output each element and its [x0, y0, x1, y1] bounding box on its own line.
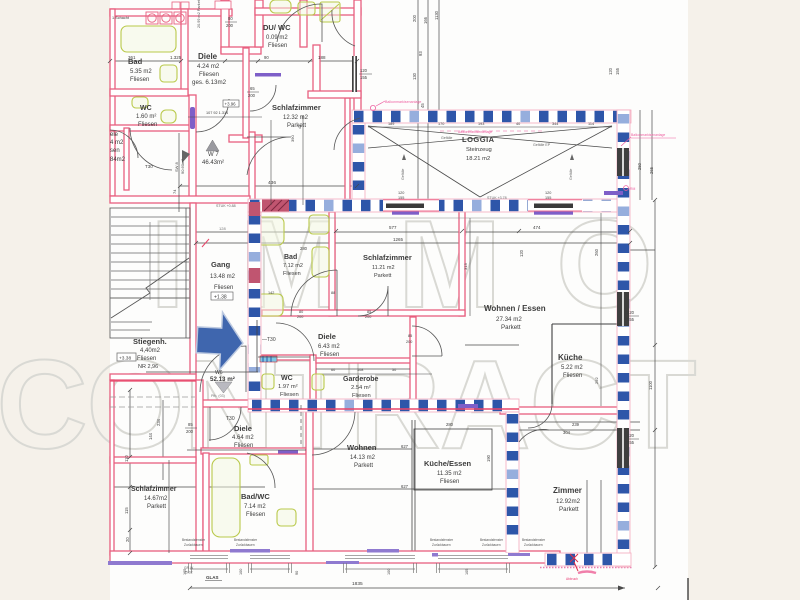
- ticks chain bottom: [188, 586, 660, 590]
- window opening bottom 4: [438, 553, 508, 561]
- svg-text:Parkett: Parkett: [374, 273, 392, 279]
- pink underline right: [631, 137, 676, 139]
- svg-text:200: 200: [226, 23, 234, 28]
- toilet WC apartment: [262, 374, 274, 389]
- window right band a: [617, 292, 629, 326]
- svg-text:52.13 m²: 52.13 m²: [210, 376, 235, 383]
- svg-text:4.64 m2: 4.64 m2: [232, 435, 254, 441]
- wall diele-b bottom: [201, 448, 306, 454]
- pink dotted line under band: [540, 567, 632, 569]
- fixture DU/WC circle: [298, 2, 315, 15]
- wall WC small bottom: [110, 125, 190, 131]
- dim small right 280: [630, 249, 655, 251]
- dim line W6: [146, 371, 258, 373]
- svg-text:Zurückbauen: Zurückbauen: [236, 543, 255, 547]
- door arc zimmer: [519, 429, 549, 442]
- stair tread 8: [111, 279, 189, 281]
- svg-text:155: 155: [615, 67, 620, 75]
- svg-text:85: 85: [367, 310, 371, 314]
- svg-text:627: 627: [401, 444, 409, 449]
- washbasin Bad/WC bottom: [277, 509, 296, 526]
- svg-text:1.Schacht: 1.Schacht: [112, 16, 130, 20]
- wall under DU/WC: [229, 135, 262, 142]
- door arc schlafzimmer apartment: [358, 286, 388, 316]
- loggia ridge b: [368, 126, 612, 148]
- dim vertical left bottom b: [162, 400, 164, 480]
- wall DU/WC right lower: [313, 45, 320, 95]
- wall Bad bottom: [110, 89, 188, 96]
- violet bar top band right: [604, 191, 623, 195]
- svg-text:344: 344: [552, 122, 558, 126]
- violet dash bottom wall b: [367, 549, 399, 553]
- svg-text:WC: WC: [140, 105, 152, 112]
- bathtub Bad apartment: [256, 217, 284, 245]
- svg-text:120: 120: [360, 68, 368, 73]
- svg-text:Gefälle: Gefälle: [569, 169, 573, 180]
- svg-text:Gang: Gang: [211, 260, 231, 269]
- svg-text:1265: 1265: [393, 237, 404, 242]
- svg-text:Fliesen: Fliesen: [130, 77, 149, 83]
- dim zimmer top 304/239: [519, 429, 640, 431]
- svg-text:Fliesen: Fliesen: [199, 71, 220, 78]
- apartment interior top line: [262, 217, 617, 219]
- svg-text:Bestandsfenster: Bestandsfenster: [234, 538, 258, 542]
- small boxes top row: [172, 2, 180, 9]
- fixture Bad apartment tall: [312, 247, 329, 277]
- violet bar diele/badwc window: [278, 450, 298, 454]
- svg-text:115: 115: [124, 507, 129, 514]
- svg-text:234: 234: [156, 418, 161, 426]
- svg-text:Schlafzimmer: Schlafzimmer: [272, 103, 321, 112]
- bathtub Bad/WC bottom: [212, 458, 240, 537]
- svg-text:474: 474: [533, 225, 541, 230]
- window opening bottom 2: [250, 553, 290, 561]
- svg-text:40: 40: [516, 122, 520, 126]
- door arc wohnen entry: [412, 326, 442, 356]
- svg-text:85: 85: [408, 334, 412, 338]
- window top band b (black bar + violet sill): [528, 200, 582, 215]
- svg-text:Parkett: Parkett: [147, 504, 166, 510]
- window right band b: [617, 428, 629, 468]
- door arc upper diele: [247, 137, 291, 175]
- violet bar corridor window: [190, 107, 195, 129]
- violet dashes bottom wall left: [108, 561, 172, 565]
- staircase outline: [110, 208, 190, 338]
- svg-text:390: 390: [290, 135, 295, 142]
- apartment entrance door gap: [249, 338, 260, 367]
- red hatch top band left: [262, 200, 289, 212]
- stair tread 3: [111, 234, 189, 236]
- svg-text:Bestandsfenster: Bestandsfenster: [522, 538, 546, 542]
- svg-text:14.67m2: 14.67m2: [144, 496, 168, 502]
- svg-text:4 m2: 4 m2: [110, 140, 124, 146]
- checker band right outer: [617, 110, 630, 567]
- svg-text:105: 105: [465, 569, 469, 575]
- wall schlafzimmer upper left vert: [249, 132, 255, 202]
- wall bottom outer: [110, 551, 560, 563]
- svg-text:Diele: Diele: [198, 52, 218, 61]
- svg-text:Schlafzimmer: Schlafzimmer: [131, 486, 177, 493]
- fraction line 120/155 b: [626, 315, 639, 317]
- svg-text:170: 170: [438, 122, 444, 126]
- svg-text:155: 155: [398, 196, 404, 200]
- svg-text:27.34 m2: 27.34 m2: [496, 316, 522, 323]
- door arc wohnen bottom: [312, 412, 355, 455]
- stair lower treads: [111, 321, 152, 323]
- pink swoosh: [578, 572, 596, 574]
- checker band apartment top: [248, 199, 617, 212]
- wall schlafzimmer-bl top: [110, 457, 196, 463]
- window right band c: [617, 148, 629, 176]
- stair tread 2: [111, 225, 189, 227]
- dark line through band gap: [256, 320, 258, 372]
- shower DU/WC: [320, 2, 340, 22]
- wall bottom-left block vertical: [196, 380, 203, 555]
- washbasin Garderobe: [312, 374, 324, 390]
- svg-text:Fliesen: Fliesen: [234, 443, 253, 449]
- svg-text:90.60m²: 90.60m²: [180, 159, 185, 174]
- svg-text:155: 155: [545, 196, 551, 200]
- box labels 60x35: [215, 1, 231, 9]
- svg-text:Wohnen: Wohnen: [347, 443, 377, 452]
- svg-text:128: 128: [219, 226, 226, 231]
- svg-text:65: 65: [250, 86, 255, 91]
- svg-text:292: 292: [594, 377, 599, 384]
- svg-text:250: 250: [637, 162, 642, 170]
- SW8 triangle marker: [182, 150, 190, 163]
- underline GLAS: [205, 580, 222, 582]
- svg-text:14.13 m2: 14.13 m2: [350, 455, 376, 461]
- dim vertical left bottom: [129, 390, 131, 553]
- drawing sheet: [110, 0, 688, 600]
- svg-text:188: 188: [318, 55, 326, 60]
- svg-text:Küche/Essen: Küche/Essen: [424, 459, 472, 468]
- svg-text:Schlafzimmer: Schlafzimmer: [363, 253, 412, 262]
- dim vertical top a: [417, 0, 419, 199]
- svg-text:110: 110: [124, 455, 129, 462]
- wall stair right vertical: [190, 203, 196, 378]
- door label box: [260, 356, 277, 362]
- stair break line: [111, 258, 189, 318]
- ticks upper chain: [108, 59, 359, 63]
- wall wc top: [258, 355, 314, 360]
- dim schlafzimmer strike: [110, 486, 265, 488]
- kueche dim vert: [600, 213, 602, 406]
- checker band loggia left: [352, 123, 365, 200]
- red tick gang: [202, 239, 209, 247]
- zimmer dim vert a: [586, 480, 588, 554]
- dim chain apartment 1265: [196, 242, 630, 244]
- svg-text:100: 100: [387, 569, 391, 575]
- wall schlafzimmer upper right vert: [345, 98, 350, 202]
- violet dash bottom wall c: [432, 553, 470, 557]
- stair inner wall line: [185, 208, 187, 338]
- wall diele right vertical: [243, 48, 249, 138]
- svg-text:+3.96: +3.96: [225, 102, 237, 107]
- svg-text:120: 120: [398, 191, 404, 195]
- svg-text:144: 144: [148, 432, 153, 440]
- svg-text:Diele: Diele: [318, 332, 336, 341]
- svg-text:627: 627: [401, 484, 409, 489]
- wall DU/WC right upper: [300, 0, 307, 47]
- stair tread 10: [111, 297, 189, 299]
- svg-text:155: 155: [627, 440, 635, 445]
- blue direction arrow: [196, 311, 245, 371]
- dark line diele-b bottom: [187, 449, 306, 451]
- svg-text:1130: 1130: [434, 10, 439, 20]
- svg-text:265: 265: [649, 166, 654, 174]
- svg-text:Fliesen: Fliesen: [563, 373, 582, 379]
- svg-text:Fliesen: Fliesen: [137, 356, 156, 362]
- washbasin circle 1: [146, 12, 158, 24]
- wall Diele left vertical: [221, 0, 229, 53]
- svg-text:361: 361: [128, 55, 136, 60]
- svg-text:84m2: 84m2: [110, 157, 126, 163]
- dim chain apartment 577/474: [196, 231, 630, 233]
- wall gang bottom: [196, 400, 261, 407]
- svg-text:Fliesen: Fliesen: [440, 479, 459, 485]
- dim page mark bottom right: [687, 578, 689, 600]
- svg-text:4,40m2: 4,40m2: [140, 348, 161, 354]
- checker band bottom right: [545, 553, 631, 566]
- svg-text:155: 155: [627, 317, 635, 322]
- svg-text:+1.38: +1.38: [214, 295, 227, 301]
- wall DU/WC left vertical: [255, 0, 263, 47]
- dim vertical right a: [639, 110, 641, 200]
- fixture WC oval a: [132, 97, 148, 108]
- ticks right chain: [653, 198, 657, 569]
- violet dash bottom wall e: [230, 549, 270, 553]
- wall gang top / block bottom: [110, 196, 250, 203]
- svg-text:1.97 m²: 1.97 m²: [278, 384, 298, 390]
- dashed lines under stairs: [110, 396, 195, 398]
- fixture WC oval b: [161, 110, 176, 123]
- dark line wc top: [258, 356, 310, 358]
- stair tread 7: [111, 270, 189, 272]
- loggia ridge a: [368, 126, 612, 148]
- pink dashed band line: [440, 130, 545, 132]
- stair tread 6: [111, 261, 189, 263]
- svg-text:313: 313: [463, 263, 468, 270]
- red hatch left band mid: [249, 268, 260, 283]
- ticks chain 1265: [194, 241, 632, 245]
- violet dash bottom wall a: [326, 561, 359, 564]
- fixture Bad/WC small: [250, 455, 268, 465]
- svg-text:1100: 1100: [648, 380, 653, 390]
- svg-text:Gefälle: Gefälle: [441, 136, 452, 140]
- wall Bad right vertical: [181, 9, 188, 95]
- svg-text:90: 90: [295, 571, 299, 575]
- door leaf diele bottom: [209, 407, 211, 441]
- svg-text:20.99 m2 Parkett: 20.99 m2 Parkett: [197, 0, 201, 28]
- svg-text:11.21 m2: 11.21 m2: [372, 265, 395, 271]
- door arc stair entry: [200, 346, 246, 392]
- ticks chain 577: [334, 229, 632, 233]
- strong red line bottom band: [248, 408, 519, 410]
- svg-text:0.09 m2: 0.09 m2: [266, 35, 288, 41]
- pink leader right: [621, 137, 631, 146]
- svg-text:200: 200: [297, 315, 303, 319]
- washbasin DU/WC: [270, 0, 291, 13]
- svg-text:Zurückbauen: Zurückbauen: [482, 543, 501, 547]
- svg-text:13.48 m2: 13.48 m2: [210, 274, 236, 280]
- svg-text:80: 80: [299, 310, 303, 314]
- svg-text:Zurückbauen: Zurückbauen: [524, 543, 543, 547]
- svg-text:Parkett: Parkett: [559, 506, 579, 513]
- svg-text:114: 114: [588, 122, 594, 126]
- svg-text:Steinzeug: Steinzeug: [466, 147, 492, 153]
- svg-text:STUK +0.88: STUK +0.88: [216, 204, 236, 208]
- svg-text:577: 577: [389, 225, 397, 230]
- triangle marker W6: [215, 382, 232, 393]
- window ticks bottom: [189, 563, 510, 573]
- svg-text:80: 80: [228, 16, 233, 21]
- svg-text:Stiegenh.: Stiegenh.: [133, 337, 167, 346]
- schlafzimmer-bl closet line: [168, 460, 170, 553]
- kueche/essen dim box: [414, 429, 492, 490]
- wall loggia-side vertical: [354, 0, 361, 202]
- dim vertical top b: [427, 0, 429, 199]
- svg-text:Balkonmarkisenanlage: Balkonmarkisenanlage: [631, 133, 665, 137]
- svg-text:Diele: Diele: [234, 424, 252, 433]
- svg-text:85: 85: [188, 422, 193, 427]
- svg-text:WC: WC: [281, 375, 293, 382]
- svg-text:200: 200: [412, 14, 417, 22]
- svg-text:Fliesen: Fliesen: [283, 271, 301, 277]
- svg-text:45: 45: [420, 103, 425, 108]
- red demolition arrow: [570, 554, 578, 571]
- svg-text:Bad: Bad: [284, 254, 297, 261]
- svg-text:120: 120: [627, 433, 635, 438]
- gefaelle arrow b: [570, 154, 574, 160]
- door arc DU/WC: [277, 4, 322, 42]
- dim chain bottom 1835: [190, 587, 625, 589]
- svg-text:120: 120: [627, 310, 635, 315]
- door arc schlafzimmer-upper left: [250, 85, 276, 111]
- checker band zimmer left: [506, 412, 519, 553]
- dim 627 upper: [300, 448, 412, 450]
- svg-text:200: 200: [365, 315, 371, 319]
- dim vertical wohnen/kueche b: [414, 420, 416, 557]
- svg-text:Fliesen: Fliesen: [214, 285, 233, 291]
- svg-text:130: 130: [412, 72, 417, 80]
- svg-text:93: 93: [418, 51, 423, 56]
- svg-text:STUK +3.78: STUK +3.78: [487, 196, 507, 200]
- svg-text:Parkett: Parkett: [354, 463, 373, 469]
- dim line diele upper: [188, 116, 262, 118]
- checker band apartment left: [248, 212, 261, 399]
- washbasin circle 3: [174, 12, 186, 24]
- dim 627 lower: [313, 488, 510, 490]
- dim chain W7 436: [180, 185, 360, 187]
- svg-text:Fliesen: Fliesen: [246, 512, 265, 518]
- stair tread 1: [111, 216, 189, 218]
- door arc bad upper-left: [110, 130, 138, 158]
- wall schlafzimmer upper top: [308, 91, 361, 98]
- svg-text:Wohnen / Essen: Wohnen / Essen: [484, 304, 546, 313]
- wall zimmer top: [500, 407, 618, 414]
- svg-text:Küche: Küche: [558, 353, 583, 362]
- svg-text:4.24 m2: 4.24 m2: [197, 63, 220, 70]
- window opening bottom 1: [190, 553, 228, 561]
- loggia slope TL-BC: [368, 126, 480, 197]
- svg-text:Bestandsfenster: Bestandsfenster: [480, 538, 504, 542]
- door arc wc diele: [276, 323, 314, 361]
- bathtub Bad upper-left: [121, 26, 176, 52]
- gefaelle arrow a: [402, 154, 406, 160]
- dark line garderobe top: [316, 368, 410, 370]
- svg-text:Zimmer: Zimmer: [553, 486, 582, 495]
- svg-text:ges. 6.13m2: ges. 6.13m2: [192, 79, 227, 86]
- svg-text:6.43 m2: 6.43 m2: [318, 344, 340, 350]
- wall bad/schlafzimmer vert: [329, 212, 335, 316]
- svg-text:155: 155: [360, 75, 368, 80]
- svg-text:18.21 m2: 18.21 m2: [466, 156, 490, 162]
- svg-text:46.43m²: 46.43m²: [202, 160, 224, 166]
- door arc schlafzimmer upper: [334, 118, 360, 150]
- svg-text:NR 2,96: NR 2,96: [138, 364, 158, 370]
- fraction line 120/155 c: [626, 438, 639, 440]
- door arc badwc bottom: [247, 453, 275, 488]
- svg-text:200: 200: [186, 429, 194, 434]
- fixture Bad apartment small: [309, 215, 329, 234]
- wall garderobe right vert: [410, 317, 416, 405]
- wall ele room divider: [124, 128, 129, 190]
- ticks chain 436: [178, 184, 359, 188]
- svg-text:239: 239: [572, 422, 580, 427]
- svg-text:Bestandsfenster: Bestandsfenster: [182, 538, 206, 542]
- svg-text:Garderobe: Garderobe: [343, 376, 379, 383]
- pink leader circle: [370, 105, 375, 110]
- svg-text:Zurückbauen: Zurückbauen: [184, 543, 203, 547]
- svg-text:200: 200: [248, 93, 256, 98]
- svg-text:2.54 m²: 2.54 m²: [351, 385, 371, 391]
- svg-text:280: 280: [300, 246, 308, 251]
- svg-text:Abbruch: Abbruch: [566, 577, 578, 581]
- wall top-left outer: [110, 9, 232, 16]
- dim chain upper horizontal: [110, 60, 360, 62]
- svg-text:Bad/WC: Bad/WC: [241, 492, 270, 501]
- svg-text:7.14 m2: 7.14 m2: [244, 504, 266, 510]
- svg-text:190: 190: [486, 454, 491, 462]
- triangle marker W7: [206, 140, 219, 151]
- wall badwc left vert: [203, 453, 209, 553]
- dim right mid horiz: [465, 344, 519, 346]
- door arc ele room: [130, 128, 172, 170]
- wall diele top horiz: [262, 310, 465, 316]
- violet bar DU/WC sill: [255, 73, 281, 77]
- fraction line 80/200: [225, 21, 237, 23]
- wall top outer right part: [255, 8, 361, 15]
- stair tread 9: [111, 288, 189, 290]
- svg-text:304: 304: [563, 430, 571, 435]
- door arc bad apartment: [291, 270, 337, 316]
- svg-text:193: 193: [478, 122, 484, 126]
- svg-text:142: 142: [268, 291, 274, 295]
- svg-text:200: 200: [406, 340, 412, 344]
- red hatch left band corner: [249, 202, 260, 216]
- svg-text:5.22 m2: 5.22 m2: [561, 365, 583, 371]
- ticks left chain: [128, 388, 132, 555]
- violet bar loggia sill left: [0, 202, 1, 204]
- svg-text:260: 260: [594, 248, 599, 256]
- door arc schlafzimmer-upper top: [332, 10, 355, 46]
- checker band loggia top: [352, 110, 631, 123]
- svg-text:Bestandsfenster: Bestandsfenster: [430, 538, 454, 542]
- dim vertical 313: [469, 218, 471, 316]
- violet dash bottom wall d: [500, 553, 530, 556]
- wall left corridor vertical: [189, 95, 196, 202]
